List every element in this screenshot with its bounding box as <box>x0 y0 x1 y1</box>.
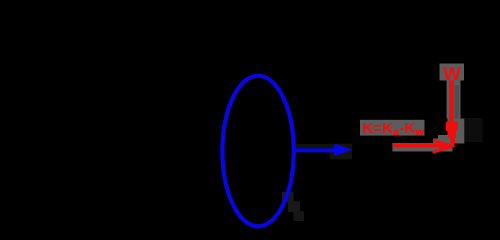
darker strip inside vertical band <box>455 85 460 119</box>
horizontal gray band (behind red right arrow) <box>392 143 452 152</box>
red horizontal arrow lower barb <box>433 146 453 152</box>
faint artifact below blue arrowhead <box>330 144 353 160</box>
horizontal gray band taller right part <box>433 139 453 152</box>
gray box behind W label <box>440 64 465 81</box>
gray box behind K formula <box>360 120 425 136</box>
red vertical arrow shaft <box>449 80 454 123</box>
red horizontal arrow head fill <box>439 143 452 150</box>
highlight ellipse (blue) around reaction site <box>222 76 293 227</box>
faint staircase artifact block 3 <box>294 211 305 221</box>
faint artifact right of vertical band <box>465 118 483 142</box>
gray junction patch small <box>438 135 448 140</box>
red horizontal arrow shaft <box>393 143 440 147</box>
faint staircase artifact block 1 <box>282 192 294 203</box>
red vertical arrow head <box>446 122 458 148</box>
red horizontal arrow upper barb <box>433 140 452 146</box>
faint staircase artifact block 2 <box>288 201 300 212</box>
vertical gray band lower wide (behind red arrowhead) <box>448 119 465 144</box>
blue arrow shaft <box>294 148 336 152</box>
blue arrow head <box>334 144 353 156</box>
faint band above blue shaft <box>296 144 334 148</box>
vertical gray band upper (behind red down arrow) <box>447 80 461 118</box>
